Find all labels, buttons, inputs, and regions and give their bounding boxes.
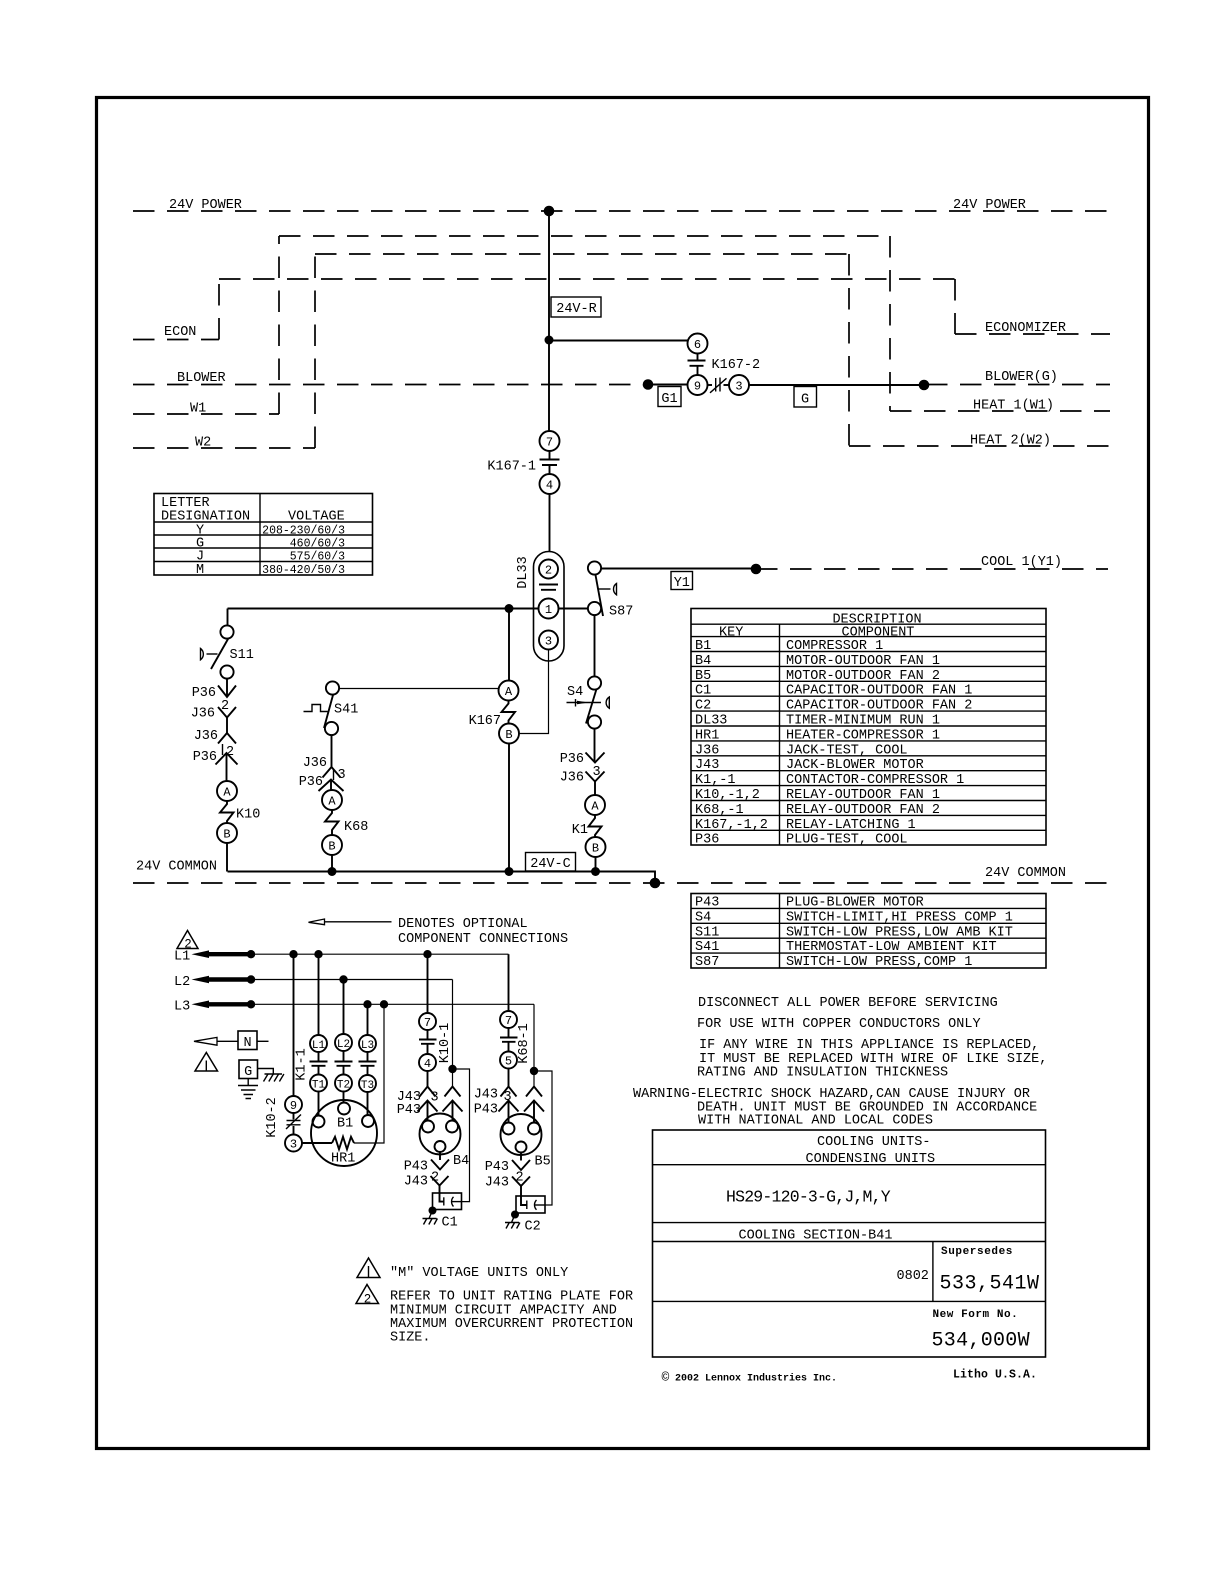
svg-text:K167-1: K167-1 bbox=[487, 460, 536, 475]
title block bbox=[653, 1130, 1046, 1357]
svg-text:208-230/60/3: 208-230/60/3 bbox=[262, 525, 345, 538]
relay contact pin 9 (K10-2) bbox=[285, 1096, 302, 1113]
svg-text:K167: K167 bbox=[469, 714, 501, 729]
node: 24V POWER tap bbox=[544, 206, 555, 217]
svg-text:S87: S87 bbox=[609, 605, 633, 620]
relay contact K167-2 bbox=[688, 358, 761, 373]
svg-text:IF ANY WIRE IN THIS APPLIANCE: IF ANY WIRE IN THIS APPLIANCE IS REPLACE… bbox=[699, 1038, 1039, 1053]
capacitor C2 bbox=[516, 1196, 545, 1235]
voltage designation table bbox=[154, 494, 373, 579]
svg-text:P36: P36 bbox=[193, 750, 217, 765]
wire: P43 to motor B4 bbox=[427, 1101, 429, 1121]
switch S4 (hi pressure limit) bbox=[567, 676, 610, 728]
svg-text:3: 3 bbox=[735, 380, 742, 394]
wire: B4 tap to C1 (optional) bbox=[453, 1069, 470, 1202]
svg-text:DL33: DL33 bbox=[695, 714, 727, 729]
svg-text:K167-2: K167-2 bbox=[712, 358, 761, 373]
compressor B1 bbox=[311, 1100, 377, 1166]
wire: K167-B to common bbox=[508, 744, 510, 872]
denotes-optional arrow bbox=[309, 919, 392, 925]
svg-text:T1: T1 bbox=[312, 1080, 326, 1092]
svg-text:0802: 0802 bbox=[897, 1269, 929, 1284]
node: blower solid right bbox=[919, 380, 930, 391]
svg-text:New Form No.: New Form No. bbox=[933, 1309, 1019, 1321]
svg-text:B: B bbox=[223, 828, 230, 842]
wire: P36 to relay K10 coil A bbox=[226, 753, 228, 781]
svg-text:J36: J36 bbox=[560, 771, 584, 786]
svg-text:T2: T2 bbox=[337, 1080, 350, 1092]
wire: S4 to plug P36 bbox=[594, 729, 596, 763]
G tag box bbox=[794, 387, 817, 408]
svg-text:DENOTES OPTIONAL: DENOTES OPTIONAL bbox=[398, 917, 528, 932]
svg-text:J36: J36 bbox=[695, 743, 719, 758]
wire: L3 drop to B5 right bbox=[533, 1004, 535, 1086]
svg-text:K167,-1,2: K167,-1,2 bbox=[695, 818, 768, 833]
wire: S41 to K167-A bbox=[339, 688, 499, 690]
svg-text:C2: C2 bbox=[695, 699, 711, 714]
svg-text:W1: W1 bbox=[190, 402, 206, 417]
ECON rail (dashed) bbox=[133, 339, 219, 341]
svg-text:CAPACITOR-OUTDOOR FAN 2: CAPACITOR-OUTDOOR FAN 2 bbox=[786, 699, 972, 714]
svg-text:24V-R: 24V-R bbox=[556, 302, 597, 317]
svg-text:C1: C1 bbox=[695, 684, 711, 699]
wire: pin3 to HR1 bbox=[302, 1142, 332, 1144]
svg-text:3: 3 bbox=[290, 1138, 297, 1152]
svg-text:4: 4 bbox=[424, 1057, 431, 1071]
wire: T2 to compressor bbox=[343, 1092, 345, 1104]
plug P43 pin 2 (B5 out) bbox=[485, 1160, 530, 1175]
svg-text:JACK-BLOWER MOTOR: JACK-BLOWER MOTOR bbox=[786, 758, 924, 773]
svg-text:SWITCH-LOW PRESS,COMP 1: SWITCH-LOW PRESS,COMP 1 bbox=[786, 955, 972, 970]
wire: K167-B link to DL33 pin3 bbox=[519, 650, 549, 734]
plug P36 pin 2 bbox=[192, 686, 236, 702]
L2 feeder wire bbox=[251, 979, 453, 981]
svg-text:JACK-TEST, COOL: JACK-TEST, COOL bbox=[786, 743, 908, 758]
svg-text:L2: L2 bbox=[337, 1039, 350, 1051]
W1 rail (dashed) bbox=[133, 413, 279, 415]
svg-text:B: B bbox=[592, 842, 599, 856]
svg-text:COOLING SECTION-B41: COOLING SECTION-B41 bbox=[739, 1229, 893, 1244]
svg-text:B4: B4 bbox=[695, 654, 711, 669]
svg-text:VOLTAGE: VOLTAGE bbox=[288, 510, 345, 525]
svg-text:2: 2 bbox=[545, 564, 552, 578]
svg-text:©: © bbox=[662, 1370, 670, 1385]
terminal B of K68 bbox=[322, 835, 342, 855]
ground at C1 bbox=[423, 1211, 438, 1225]
relay contact K10-1 bbox=[419, 1023, 453, 1064]
jack J43 (B4 right) bbox=[445, 1087, 461, 1097]
svg-text:S4: S4 bbox=[567, 685, 583, 700]
pin 3 bbox=[729, 375, 749, 395]
contactor K1-1 terminal L2 bbox=[335, 1034, 352, 1051]
wire: between J36 jacks bbox=[226, 718, 228, 734]
jack J36 pin 2 bbox=[191, 707, 236, 722]
svg-text:S4: S4 bbox=[695, 910, 711, 925]
terminal B of K167 bbox=[499, 724, 519, 744]
plug P36 pin 3 (S41 branch) bbox=[299, 775, 344, 791]
node: K1 common bbox=[591, 867, 600, 876]
svg-text:COOL 1(Y1): COOL 1(Y1) bbox=[981, 555, 1062, 570]
svg-text:K1-1: K1-1 bbox=[295, 1048, 310, 1080]
svg-text:PLUG-TEST, COOL: PLUG-TEST, COOL bbox=[786, 833, 908, 848]
wire: P36 to relay K68 coil A bbox=[330, 780, 332, 791]
contactor K1-1 terminal L3 bbox=[359, 1035, 376, 1052]
wire: pin3 to blower right bbox=[749, 384, 924, 386]
svg-text:9: 9 bbox=[290, 1099, 297, 1113]
relay pin 7 (K68-1) bbox=[500, 1011, 517, 1028]
plug P36 return pin 2 bbox=[193, 750, 238, 765]
contactor contact pole1 bbox=[310, 1052, 328, 1075]
wire: to K167-2 pin 6 bbox=[549, 340, 688, 342]
N box bbox=[238, 1031, 269, 1051]
node: 24V-R junction bbox=[545, 336, 554, 345]
svg-text:533,541W: 533,541W bbox=[940, 1273, 1040, 1296]
svg-text:KEY: KEY bbox=[719, 626, 743, 641]
wire: J36 to relay K1 coil A bbox=[594, 782, 596, 796]
timer DL33 capsule bbox=[534, 552, 565, 662]
ground at C2 bbox=[505, 1215, 520, 1229]
24V POWER rail (dashed) bbox=[133, 210, 1110, 212]
svg-text:575/60/3: 575/60/3 bbox=[290, 551, 345, 564]
relay coil K1 bbox=[572, 815, 602, 838]
wire: K68-B to common bbox=[331, 855, 333, 872]
wire: K10-B to common corner bbox=[226, 843, 228, 872]
description table 2 bbox=[691, 894, 1046, 971]
svg-text:7: 7 bbox=[546, 436, 553, 450]
svg-text:CONDENSING UNITS: CONDENSING UNITS bbox=[806, 1152, 936, 1167]
svg-text:P43: P43 bbox=[397, 1103, 421, 1118]
timer contact DL33 bbox=[539, 585, 558, 590]
wire: L1 to K10-2 bbox=[293, 954, 295, 1096]
node: blower solid left bbox=[643, 379, 654, 390]
terminal A of K10 bbox=[217, 781, 237, 801]
contactor K1-1 terminal T1 bbox=[310, 1075, 327, 1092]
node L2 taps bbox=[247, 975, 255, 983]
svg-text:J36: J36 bbox=[303, 756, 327, 771]
svg-text:DESIGNATION: DESIGNATION bbox=[161, 510, 250, 525]
svg-text:W2: W2 bbox=[195, 436, 211, 451]
svg-text:CAPACITOR-OUTDOOR FAN 1: CAPACITOR-OUTDOOR FAN 1 bbox=[786, 684, 972, 699]
pin 9 bbox=[688, 375, 708, 395]
node: B5 right branch tap bbox=[530, 1067, 538, 1075]
svg-text:BLOWER(G): BLOWER(G) bbox=[985, 370, 1058, 385]
relay contact 9-3 with slash bbox=[708, 378, 730, 393]
svg-text:P36: P36 bbox=[192, 686, 216, 701]
svg-text:3: 3 bbox=[545, 635, 552, 649]
svg-text:P43: P43 bbox=[485, 1160, 509, 1175]
svg-text:3: 3 bbox=[338, 768, 346, 783]
contactor contact pole2 bbox=[335, 1051, 353, 1075]
ECONOMIZER rail (dashed) bbox=[955, 333, 1110, 335]
svg-text:7: 7 bbox=[424, 1016, 431, 1030]
relay contact K167-1 bbox=[487, 460, 559, 475]
wire: L1 to contactor pole1 bbox=[318, 954, 320, 1035]
relay coil K68 bbox=[325, 810, 368, 835]
svg-text:HR1: HR1 bbox=[695, 728, 719, 743]
svg-text:24V-C: 24V-C bbox=[530, 857, 571, 872]
wire: ECONOMIZER drop (dashed) bbox=[954, 279, 956, 334]
W2 rail (dashed) bbox=[133, 447, 315, 449]
svg-text:K10-2: K10-2 bbox=[265, 1097, 280, 1138]
wire: DL33 pin1 to S87 bbox=[559, 608, 589, 610]
svg-text:N: N bbox=[243, 1036, 251, 1051]
wire: T3 to compressor bbox=[367, 1092, 369, 1116]
svg-text:Supersedes: Supersedes bbox=[941, 1246, 1013, 1258]
relay coil K167 (latching) bbox=[469, 701, 515, 730]
svg-text:24V COMMON: 24V COMMON bbox=[985, 866, 1066, 881]
svg-text:K68-1: K68-1 bbox=[517, 1023, 532, 1064]
svg-text:2: 2 bbox=[364, 1293, 372, 1307]
note triangle 1 bbox=[357, 1258, 380, 1278]
N terminal arrow bbox=[194, 1037, 238, 1045]
svg-text:K1: K1 bbox=[572, 823, 588, 838]
svg-text:460/60/3: 460/60/3 bbox=[290, 538, 345, 551]
svg-text:L2: L2 bbox=[174, 975, 190, 990]
wire: K167 branch drop bbox=[508, 609, 510, 681]
24V-C tag box bbox=[526, 853, 576, 873]
wire: B5 tap to C2 (optional) bbox=[534, 1071, 552, 1205]
svg-text:P43: P43 bbox=[404, 1160, 428, 1175]
node L1 taps bbox=[247, 950, 255, 958]
svg-text:A: A bbox=[328, 795, 336, 809]
svg-text:3: 3 bbox=[431, 1091, 439, 1106]
wire: rail to DL33 pin1 bbox=[228, 608, 539, 610]
svg-text:COMPRESSOR 1: COMPRESSOR 1 bbox=[786, 639, 883, 654]
svg-text:COMPONENT CONNECTIONS: COMPONENT CONNECTIONS bbox=[398, 932, 568, 947]
relay contact K10-2 with slash bbox=[286, 1113, 301, 1135]
jack J43 pin 3 (B4) bbox=[397, 1087, 436, 1106]
wire: S41 to jack J36 bbox=[331, 735, 333, 767]
svg-text:T3: T3 bbox=[361, 1080, 374, 1092]
pin 6 bbox=[688, 334, 708, 354]
svg-text:ECONOMIZER: ECONOMIZER bbox=[985, 321, 1066, 336]
svg-text:L1: L1 bbox=[312, 1040, 326, 1052]
relay coil K10 bbox=[220, 801, 260, 823]
wire: contact to pin 9 bbox=[697, 367, 699, 376]
svg-text:B5: B5 bbox=[695, 669, 711, 684]
svg-text:J43: J43 bbox=[485, 1176, 509, 1191]
svg-text:TIMER-MINIMUM RUN 1: TIMER-MINIMUM RUN 1 bbox=[786, 714, 940, 729]
node: C1 ground bbox=[429, 1207, 437, 1215]
svg-text:B4: B4 bbox=[453, 1154, 469, 1169]
wire: J43 into C1 bbox=[440, 1186, 444, 1202]
svg-text:HEAT 2(W2): HEAT 2(W2) bbox=[970, 434, 1051, 449]
node: COOL tap bbox=[751, 564, 762, 575]
24V-R tag box bbox=[551, 297, 601, 317]
svg-text:J43: J43 bbox=[474, 1088, 498, 1103]
svg-text:DL33: DL33 bbox=[516, 556, 531, 588]
node: common to dashed rail bbox=[650, 878, 661, 889]
BLOWER(G) rail right (dashed) bbox=[926, 384, 1110, 386]
svg-text:380-420/50/3: 380-420/50/3 bbox=[262, 564, 345, 577]
contactor K1-1 terminal T3 bbox=[359, 1075, 376, 1092]
svg-text:A: A bbox=[223, 786, 231, 800]
svg-text:COOLING UNITS-: COOLING UNITS- bbox=[817, 1135, 930, 1150]
node: K167 branch tap bbox=[505, 604, 514, 613]
wire: pin5 to jack J43 bbox=[508, 1069, 510, 1087]
DL33 pin 2 bbox=[539, 560, 558, 579]
contactor K1-1 terminal T2 bbox=[335, 1075, 352, 1092]
svg-text:SIZE.: SIZE. bbox=[390, 1331, 431, 1346]
svg-text:SWITCH-LIMIT,HI PRESS COMP 1: SWITCH-LIMIT,HI PRESS COMP 1 bbox=[786, 910, 1013, 925]
wire: pin7 to contact bbox=[549, 451, 551, 459]
svg-text:L1: L1 bbox=[174, 950, 190, 965]
motor B4 bbox=[420, 1114, 470, 1170]
svg-text:P36: P36 bbox=[695, 833, 719, 848]
svg-text:ECON: ECON bbox=[164, 325, 196, 340]
wire: HEAT1 drop (dashed) bbox=[889, 236, 891, 411]
wire: L1 to K10-1 bbox=[427, 954, 429, 1013]
contactor K1-1 terminal L1 bbox=[310, 1035, 327, 1052]
wire: contact to pin 4 bbox=[549, 466, 551, 474]
pin number 3 with tick bbox=[334, 768, 346, 783]
wire: S87 to Y1 bbox=[601, 568, 756, 570]
jack J36 return pin 2 bbox=[194, 729, 236, 744]
note 2 text bbox=[390, 1290, 633, 1346]
terminal B of K1 bbox=[586, 837, 606, 857]
jack J43 pin 2 (B5 out) bbox=[485, 1176, 530, 1191]
svg-text:K68: K68 bbox=[344, 820, 368, 835]
plug P43 pin 3 (B5) bbox=[474, 1101, 519, 1118]
svg-text:G: G bbox=[801, 393, 809, 408]
svg-text:K1,-1: K1,-1 bbox=[695, 773, 736, 788]
svg-text:"M" VOLTAGE UNITS ONLY: "M" VOLTAGE UNITS ONLY bbox=[390, 1266, 568, 1281]
wire: L1 to K68-1 bbox=[508, 954, 510, 1011]
svg-text:B: B bbox=[328, 840, 335, 854]
thermostat S41 (low ambient kit) bbox=[304, 681, 359, 735]
svg-text:Litho U.S.A.: Litho U.S.A. bbox=[953, 1369, 1037, 1382]
node: K68 common bbox=[328, 867, 337, 876]
svg-text:S41: S41 bbox=[334, 703, 358, 718]
svg-text:G1: G1 bbox=[661, 392, 677, 407]
wire: W2-HEAT2 rail (dashed) bbox=[315, 253, 849, 255]
svg-text:REFER TO UNIT RATING PLATE FOR: REFER TO UNIT RATING PLATE FOR bbox=[390, 1290, 633, 1305]
svg-text:HS29-120-3-G,J,M,Y: HS29-120-3-G,J,M,Y bbox=[726, 1188, 891, 1207]
svg-text:534,000W: 534,000W bbox=[932, 1330, 1030, 1353]
wire: L2 to contactor pole2 bbox=[343, 980, 345, 1035]
wire: S87 to S4 bbox=[594, 615, 596, 677]
svg-text:DISCONNECT ALL POWER BEFORE SE: DISCONNECT ALL POWER BEFORE SERVICING bbox=[698, 996, 998, 1011]
jack J36 pin 3 (S41 branch) bbox=[303, 756, 341, 778]
svg-text:K10,-1,2: K10,-1,2 bbox=[695, 788, 760, 803]
description table bbox=[691, 609, 1046, 848]
G1 tag box bbox=[658, 387, 681, 408]
24V common solid rail bbox=[228, 872, 656, 884]
svg-text:6: 6 bbox=[694, 338, 701, 352]
wire: S11 to plug P36 bbox=[226, 679, 228, 697]
G box bbox=[239, 1060, 258, 1080]
svg-text:J43: J43 bbox=[404, 1175, 428, 1190]
jack J36 pin 3 bbox=[560, 771, 605, 786]
wire: pin4 to timer DL33 bbox=[549, 494, 551, 552]
wire: P43 to motor B4 right bbox=[452, 1101, 454, 1121]
wire: ECON riser (dashed) bbox=[218, 279, 220, 340]
wire: HEAT2 drop (dashed) bbox=[848, 254, 850, 446]
L1 terminal bbox=[174, 950, 251, 965]
jack J43 pin 2 (B4 out) bbox=[404, 1175, 449, 1190]
wire: main 24V riser bbox=[548, 211, 550, 431]
chassis ground at G bbox=[258, 1069, 284, 1082]
wire: blower to pin 9 bbox=[648, 384, 688, 386]
svg-text:K10: K10 bbox=[236, 808, 260, 823]
svg-text:J36: J36 bbox=[194, 729, 218, 744]
svg-text:THERMOSTAT-LOW AMBIENT KIT: THERMOSTAT-LOW AMBIENT KIT bbox=[786, 940, 997, 955]
svg-text:K10-1: K10-1 bbox=[438, 1023, 453, 1064]
svg-text:K68,-1: K68,-1 bbox=[695, 803, 744, 818]
svg-text:4: 4 bbox=[546, 479, 553, 493]
motor B5 bbox=[501, 1114, 551, 1170]
COOL 1(Y1) rail (dashed) bbox=[756, 568, 1108, 570]
wire: ECON-ECONOMIZER rail (dashed) bbox=[219, 278, 955, 280]
svg-text:G: G bbox=[244, 1065, 252, 1080]
svg-text:C1: C1 bbox=[442, 1216, 458, 1231]
terminal A of K68 bbox=[322, 790, 342, 810]
svg-text:M: M bbox=[196, 563, 204, 578]
wire: P43 to motor B5 bbox=[508, 1101, 510, 1123]
warning text block bbox=[633, 996, 1047, 1129]
svg-text:CONTACTOR-COMPRESSOR 1: CONTACTOR-COMPRESSOR 1 bbox=[786, 773, 964, 788]
L3 terminal bbox=[174, 1000, 251, 1015]
wire: pin4 to jack J43 bbox=[427, 1071, 429, 1087]
switch S11 (low press low amb kit) bbox=[201, 625, 254, 678]
L1 feeder wire bbox=[251, 953, 509, 955]
warning triangle 2 (top) bbox=[177, 931, 198, 952]
wire: rail corner to S11 bbox=[227, 609, 229, 626]
svg-text:RELAY-OUTDOOR FAN 2: RELAY-OUTDOOR FAN 2 bbox=[786, 803, 940, 818]
HEAT 2(W2) rail (dashed) bbox=[849, 445, 1110, 447]
svg-text:MOTOR-OUTDOOR FAN 2: MOTOR-OUTDOOR FAN 2 bbox=[786, 669, 940, 684]
svg-text:P36: P36 bbox=[560, 752, 584, 767]
wire: P43 to motor B5 right bbox=[533, 1101, 535, 1123]
svg-text:BLOWER: BLOWER bbox=[177, 371, 226, 386]
svg-text:RATING AND INSULATION THICKNES: RATING AND INSULATION THICKNESS bbox=[697, 1066, 948, 1081]
heater HR1 resistor bbox=[331, 1137, 355, 1167]
L3 feeder wire bbox=[251, 1003, 534, 1005]
wire: K1-B to common bbox=[595, 857, 597, 872]
wire: B5 to plug P43 bbox=[520, 1153, 522, 1161]
wire: L2 drop to B4 right bbox=[452, 980, 454, 1087]
relay pin 7 (K10-1) bbox=[419, 1013, 436, 1030]
svg-text:24V COMMON: 24V COMMON bbox=[136, 860, 217, 875]
relay pin 5 (K68-1) bbox=[500, 1052, 517, 1069]
svg-text:B1: B1 bbox=[695, 639, 711, 654]
svg-text:MOTOR-OUTDOOR FAN 1: MOTOR-OUTDOOR FAN 1 bbox=[786, 654, 940, 669]
svg-text:A: A bbox=[505, 685, 513, 699]
jack J43 (B5 right) bbox=[526, 1087, 542, 1097]
svg-text:RELAY-OUTDOOR FAN 1: RELAY-OUTDOOR FAN 1 bbox=[786, 788, 940, 803]
pin 4 bbox=[540, 474, 560, 494]
node L3 taps bbox=[247, 1000, 255, 1008]
terminal A of K1 bbox=[585, 795, 605, 815]
svg-text:J43: J43 bbox=[695, 758, 719, 773]
24V COMMON rail (dashed) bbox=[133, 882, 1110, 884]
wire: HR1 to L3 (optional) bbox=[354, 1004, 384, 1143]
wire: W2 riser (dashed) bbox=[314, 254, 316, 448]
svg-text:S87: S87 bbox=[695, 955, 719, 970]
svg-text:24V POWER: 24V POWER bbox=[169, 198, 242, 213]
svg-text:24V POWER: 24V POWER bbox=[953, 198, 1026, 213]
svg-text:L3: L3 bbox=[174, 1000, 190, 1015]
plug P43 pin 3 (B4) bbox=[397, 1101, 438, 1119]
BLOWER rail left (dashed) bbox=[133, 384, 646, 386]
svg-text:FOR USE WITH COPPER CONDUCTORS: FOR USE WITH COPPER CONDUCTORS ONLY bbox=[697, 1017, 981, 1032]
node: C2 ground bbox=[511, 1211, 519, 1219]
HEAT 1(W1) rail (dashed) bbox=[890, 410, 1110, 412]
note triangle 2 bbox=[356, 1285, 379, 1307]
svg-text:HR1: HR1 bbox=[331, 1152, 355, 1167]
svg-text:B: B bbox=[505, 728, 512, 742]
wire: W1-HEAT1 rail (dashed) bbox=[279, 235, 890, 237]
